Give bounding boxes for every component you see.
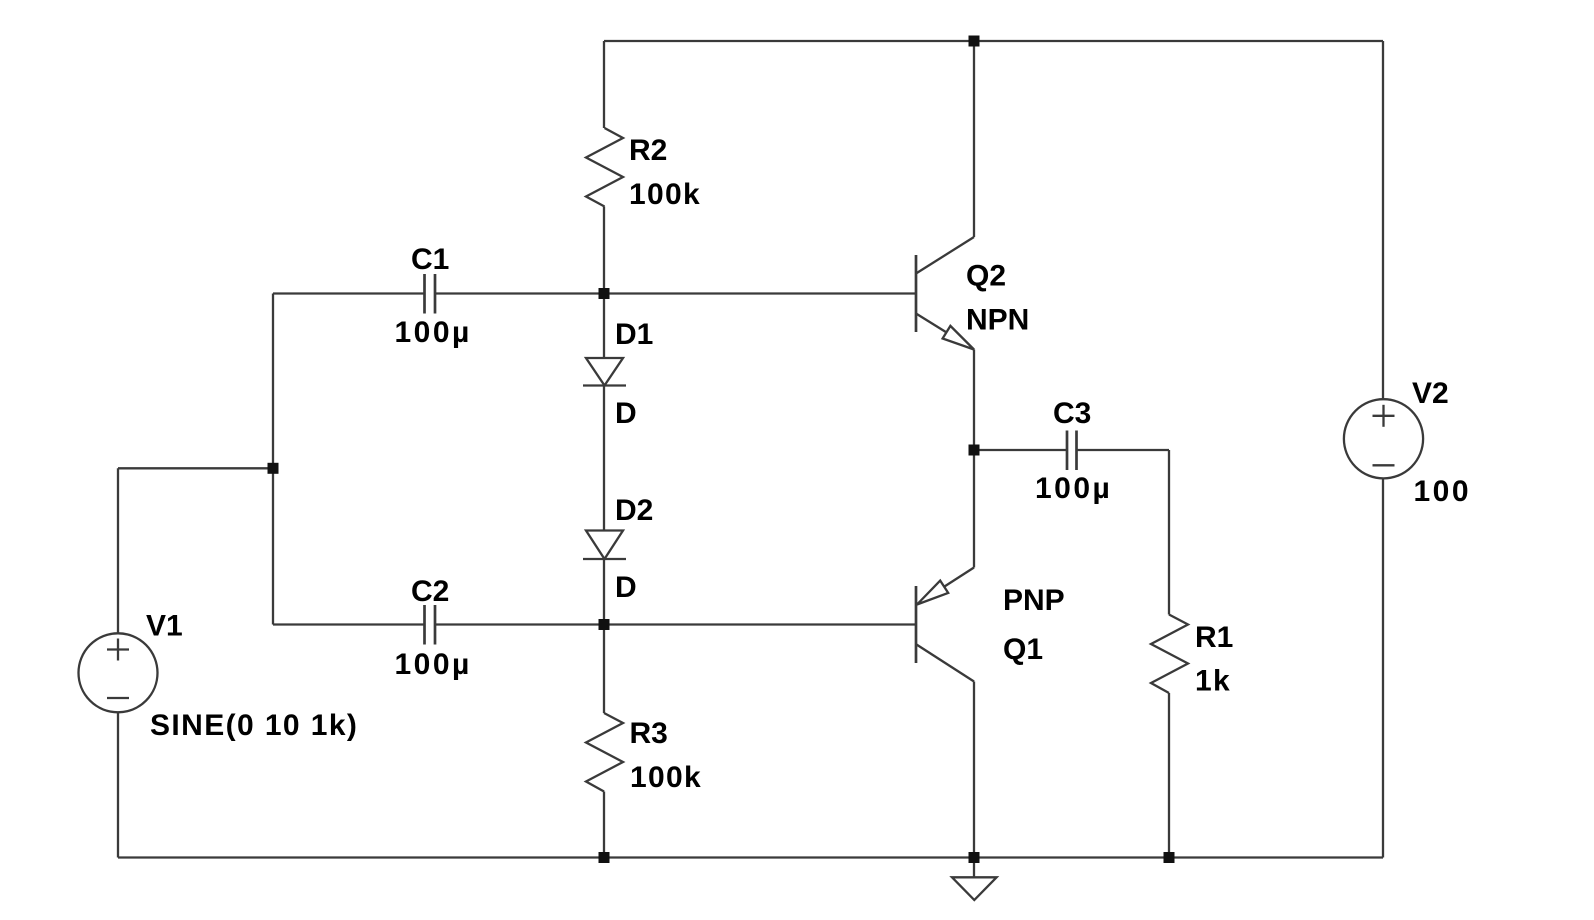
svg-text:Q1: Q1 xyxy=(1003,633,1043,666)
svg-text:100: 100 xyxy=(1414,475,1472,508)
svg-text:D2: D2 xyxy=(615,494,653,527)
svg-text:SINE(0 10 1k): SINE(0 10 1k) xyxy=(150,709,358,742)
svg-text:C1: C1 xyxy=(411,243,449,276)
svg-text:Q2: Q2 xyxy=(966,260,1006,293)
svg-text:R2: R2 xyxy=(629,134,667,167)
svg-text:100µ: 100µ xyxy=(1035,472,1112,505)
svg-text:100µ: 100µ xyxy=(395,316,472,349)
svg-text:V1: V1 xyxy=(146,609,183,642)
svg-text:D1: D1 xyxy=(615,318,653,351)
svg-text:PNP: PNP xyxy=(1003,584,1065,617)
svg-text:100k: 100k xyxy=(630,761,702,794)
svg-text:R3: R3 xyxy=(630,717,668,750)
svg-text:C3: C3 xyxy=(1053,397,1091,430)
svg-text:NPN: NPN xyxy=(966,304,1029,337)
svg-text:100µ: 100µ xyxy=(395,648,472,681)
svg-text:1k: 1k xyxy=(1195,665,1231,698)
svg-text:R1: R1 xyxy=(1195,621,1233,654)
svg-text:C2: C2 xyxy=(411,575,449,608)
svg-text:D: D xyxy=(615,571,637,604)
svg-text:V2: V2 xyxy=(1412,377,1449,410)
svg-text:D: D xyxy=(615,397,637,430)
svg-text:100k: 100k xyxy=(629,178,701,211)
